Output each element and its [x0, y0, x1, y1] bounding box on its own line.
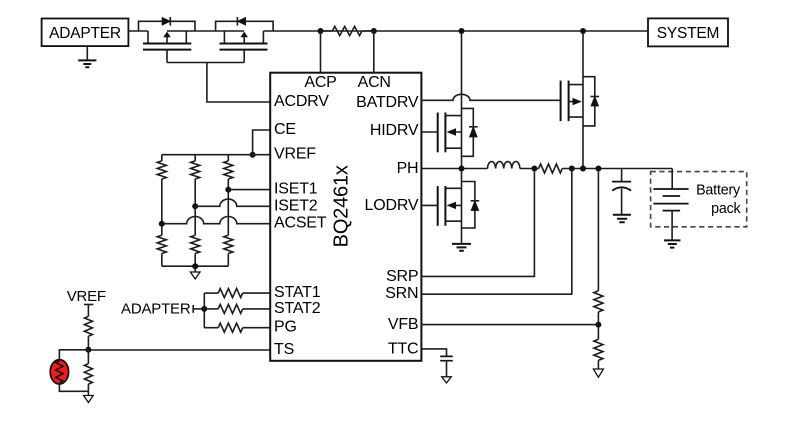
svg-text:STAT1: STAT1 [274, 284, 321, 301]
ADAPTER input box [42, 19, 129, 47]
op-amp U1 charger IC BQ2461x [270, 73, 421, 361]
body diode D5 of Q5 [583, 77, 595, 126]
node TS junction [85, 347, 91, 353]
svg-text:SRN: SRN [385, 285, 418, 302]
svg-text:VREF: VREF [274, 146, 316, 163]
wire VREF rail [162, 154, 270, 156]
svg-text:TTC: TTC [388, 341, 419, 358]
resistor R13 VFB bottom [594, 339, 603, 360]
ground battery [664, 240, 681, 247]
svg-text:LODRV: LODRV [365, 197, 419, 214]
ground VFB divider (open arrow) [593, 369, 603, 377]
ground divider (open arrow) [194, 266, 196, 272]
node divider ground junction [192, 263, 198, 269]
wire Q4 drain-source [461, 169, 463, 244]
ground TTC (open arrow) [442, 377, 452, 383]
wire adapter to Q1 source [128, 30, 148, 32]
node CE-VREF junction [250, 152, 256, 158]
ground TS divider (open arrow) [84, 396, 94, 403]
node Q3 on rail [459, 28, 465, 34]
node PH junction [459, 166, 465, 172]
node SRN junction [569, 166, 575, 172]
transistor Q4 low-side N-FET [437, 186, 439, 226]
node VFB tap [595, 322, 601, 328]
wire HIDRV gate [421, 131, 437, 133]
svg-text:BATDRV: BATDRV [356, 94, 419, 111]
svg-text:BQ2461x: BQ2461x [331, 165, 353, 247]
capacitor C3 TTC [440, 356, 453, 360]
wire SRP [421, 169, 534, 277]
svg-text:VREF: VREF [67, 288, 106, 305]
wire thermistor bottom [59, 384, 88, 391]
input current sense resistor [332, 26, 362, 35]
wire into battery [671, 169, 673, 190]
transistor Q5 battery P-FET [560, 81, 562, 122]
node Q5 on rail [580, 28, 586, 34]
ground output cap [613, 215, 631, 223]
svg-text:STAT2: STAT2 [274, 300, 321, 317]
wire LODRV gate [421, 204, 437, 206]
node ACN on rail [371, 28, 377, 34]
resistor R8 STAT2 [204, 308, 218, 310]
resistor R4 bottom col1 [157, 235, 166, 253]
resistor R6 bottom col3 [224, 235, 233, 253]
svg-text:CE: CE [274, 121, 296, 138]
wire to thermistor [59, 350, 88, 360]
capacitor C2 output [621, 169, 623, 182]
resistor R2 top col2 [194, 155, 196, 161]
svg-text:SRP: SRP [386, 268, 418, 285]
wire ACN down to IC [373, 31, 375, 73]
svg-text:ISET2: ISET2 [274, 197, 318, 214]
body diode D1 of Q1 [139, 21, 196, 31]
wire TS [88, 349, 270, 351]
resistor R11 TS lower [87, 350, 89, 364]
wire battery to VFB divider [597, 169, 599, 291]
svg-text:ADAPTER: ADAPTER [121, 301, 191, 318]
node SRP junction [531, 166, 537, 172]
resistor R1 top col1 [161, 155, 163, 161]
resistor R9 PG [204, 327, 218, 329]
node VFB junction [595, 166, 601, 172]
wire col3 to ISET1 [227, 179, 229, 235]
resistor R3 top col3 [227, 155, 229, 161]
wire col1 to ACSET with hops [161, 179, 163, 235]
wire system rail to Q5 drain [582, 31, 584, 169]
svg-text:ACP: ACP [304, 74, 336, 91]
battery pack dashed box [651, 172, 747, 227]
svg-text:HIDRV: HIDRV [370, 122, 419, 139]
terminal VREF [84, 304, 93, 306]
ground Q4 source [452, 244, 471, 251]
svg-text:TS: TS [274, 341, 294, 358]
body diode D3 of Q3 [462, 108, 474, 156]
wire TTC [421, 349, 446, 357]
wire rail segment ACP-resistor [321, 30, 374, 32]
resistor R5 bottom col2 [191, 235, 200, 253]
wire CE to VREF net [253, 130, 271, 155]
wire ACP down to IC [320, 31, 322, 73]
gate bus wire Q1-Q2 to ACDRV [167, 63, 270, 103]
svg-text:ADAPTER: ADAPTER [49, 25, 121, 42]
terminal adapter status [192, 305, 194, 313]
resistor R12 VFB top [594, 291, 603, 312]
svg-text:SYSTEM: SYSTEM [657, 25, 720, 42]
wire VFB [421, 324, 598, 326]
svg-text:ISET1: ISET1 [274, 181, 318, 198]
wire BATDRV with hop [421, 94, 560, 100]
svg-text:VFB: VFB [388, 316, 419, 333]
svg-text:PG: PG [274, 319, 297, 336]
node status bus [201, 306, 207, 312]
ground below ADAPTER box [86, 46, 88, 60]
wire PH to inductor [421, 168, 487, 170]
wire inductor to sense [520, 168, 539, 170]
charge current sense resistor [539, 164, 563, 173]
body diode D2 of Q2 [216, 21, 274, 31]
wire rail to Q3 drain [461, 31, 463, 169]
wire SRN [421, 169, 571, 295]
svg-text:pack: pack [711, 201, 741, 217]
battery BT1 [653, 189, 688, 211]
resistor R7 STAT1 [204, 292, 218, 294]
svg-text:Battery: Battery [696, 182, 741, 198]
wire divider bottom bus [162, 265, 229, 267]
transistor Q2 (P-FET reverse blocking) [224, 31, 263, 44]
thermistor RT1 (red) [50, 360, 68, 385]
SYSTEM output box [648, 18, 728, 46]
node ACP on rail [318, 28, 324, 34]
node Q5 source junction [580, 166, 586, 172]
inductor L1 [488, 161, 520, 168]
resistor R10 VREF-TS [87, 305, 89, 317]
transistor Q1 (P-FET reverse blocking) [148, 31, 186, 44]
wire col2 to ISET2 with hop [194, 179, 196, 235]
wire sense to battery rail [562, 168, 672, 170]
body diode D4 of Q4 [462, 182, 475, 229]
transistor Q3 high-side N-FET [437, 113, 439, 153]
svg-text:ACDRV: ACDRV [274, 93, 329, 110]
wire Q1 body to Q2 body [167, 30, 244, 32]
wire status bus [203, 293, 205, 328]
svg-text:ACN: ACN [358, 74, 391, 91]
wire Q2 drain to SYSTEM [263, 30, 648, 32]
svg-text:ACSET: ACSET [274, 215, 327, 232]
svg-text:PH: PH [397, 160, 419, 177]
